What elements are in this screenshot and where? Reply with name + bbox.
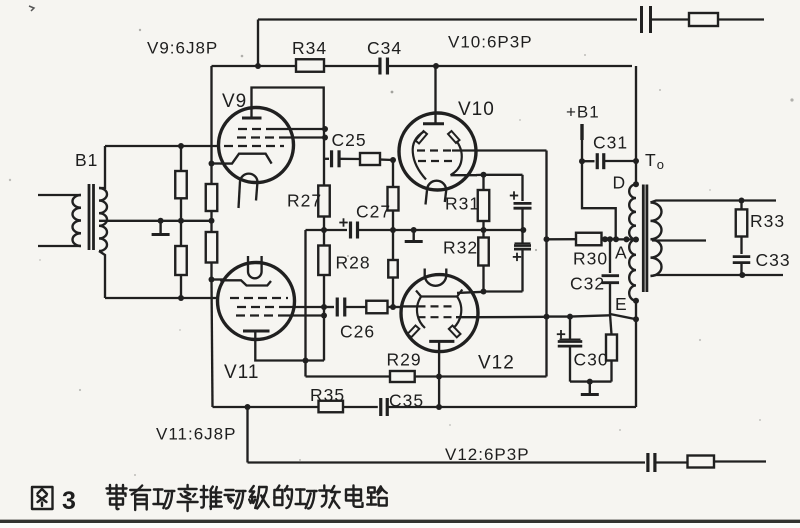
svg-text:V11:6J8P: V11:6J8P	[156, 425, 236, 444]
svg-text:3: 3	[62, 487, 77, 515]
svg-text:C25: C25	[332, 130, 367, 150]
svg-text:+B1: +B1	[566, 103, 600, 122]
svg-text:C34: C34	[367, 38, 402, 58]
svg-text:C26: C26	[340, 322, 375, 342]
svg-text:V10: V10	[458, 99, 495, 120]
svg-text:C33: C33	[756, 250, 791, 270]
svg-text:V12: V12	[478, 353, 515, 374]
svg-text:R35: R35	[310, 385, 345, 405]
svg-text:D: D	[613, 173, 627, 193]
svg-text:R34: R34	[292, 38, 327, 58]
svg-text:R33: R33	[750, 211, 785, 231]
svg-text:V12:6P3P: V12:6P3P	[445, 445, 530, 464]
svg-text:C31: C31	[593, 133, 628, 153]
svg-text:R31: R31	[445, 194, 480, 214]
svg-text:R29: R29	[387, 350, 422, 370]
svg-text:C27: C27	[356, 202, 391, 222]
svg-text:V11: V11	[224, 362, 259, 383]
svg-text:B1: B1	[75, 150, 98, 170]
svg-text:V10:6P3P: V10:6P3P	[448, 33, 533, 52]
svg-text:C35: C35	[389, 391, 424, 411]
svg-text:R27: R27	[287, 191, 322, 211]
svg-text:C32: C32	[570, 274, 605, 294]
svg-text:A: A	[615, 243, 628, 263]
svg-text:C30: C30	[574, 350, 609, 370]
svg-text:R28: R28	[336, 253, 371, 273]
svg-text:E: E	[615, 294, 628, 314]
svg-text:R32: R32	[443, 238, 478, 258]
svg-text:V9:6J8P: V9:6J8P	[147, 39, 218, 58]
svg-text:R30: R30	[573, 249, 608, 269]
svg-text:V9: V9	[222, 91, 247, 112]
